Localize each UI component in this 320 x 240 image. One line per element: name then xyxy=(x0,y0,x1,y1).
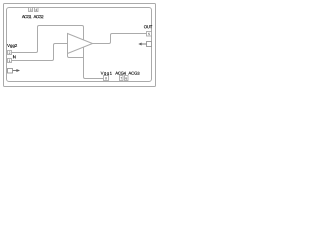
wire amp bottom-left tail xyxy=(68,54,84,58)
svg-text:ACG4: ACG4 xyxy=(115,71,126,76)
svg-text:8: 8 xyxy=(105,76,107,80)
svg-text:ACG1: ACG1 xyxy=(22,14,32,19)
pin 8 box xyxy=(104,76,109,81)
wire Vgg2 to amp top bias xyxy=(12,26,84,53)
pin 4 box xyxy=(35,8,39,12)
svg-text:Vgg1: Vgg1 xyxy=(101,71,113,76)
svg-text:ACG2: ACG2 xyxy=(33,14,44,19)
pin 2 box xyxy=(8,51,12,55)
svg-text:7: 7 xyxy=(120,76,122,80)
wire IN to amp input xyxy=(12,44,68,61)
pin 7 box xyxy=(120,76,124,81)
svg-text:ACG3: ACG3 xyxy=(128,71,140,76)
wire amp bottom bias to pin 8 xyxy=(84,47,104,78)
op-amp U1 (amplifier triangle) xyxy=(68,34,93,54)
svg-text:2: 2 xyxy=(9,51,11,55)
pin 6 box xyxy=(125,76,129,81)
pin 1 box xyxy=(8,59,12,63)
outer border xyxy=(4,4,156,87)
svg-text:5: 5 xyxy=(148,32,150,36)
pin 5 box xyxy=(147,32,152,37)
svg-text:IN: IN xyxy=(13,54,16,59)
svg-text:Vgg2: Vgg2 xyxy=(7,43,18,48)
off-page connector left (arrow) xyxy=(13,69,20,72)
off-page connector left (box) xyxy=(8,69,13,74)
pin 3 box xyxy=(29,8,33,12)
svg-text:3: 3 xyxy=(30,8,32,12)
svg-text:OUT: OUT xyxy=(144,24,153,29)
wire amp output to OUT xyxy=(93,34,147,44)
svg-text:4: 4 xyxy=(35,8,37,12)
inner border xyxy=(7,8,152,82)
svg-text:1: 1 xyxy=(9,59,11,63)
svg-text:6: 6 xyxy=(125,76,127,80)
off-page connector right (box) xyxy=(147,42,152,47)
off-page connector right (arrow) xyxy=(138,43,146,46)
